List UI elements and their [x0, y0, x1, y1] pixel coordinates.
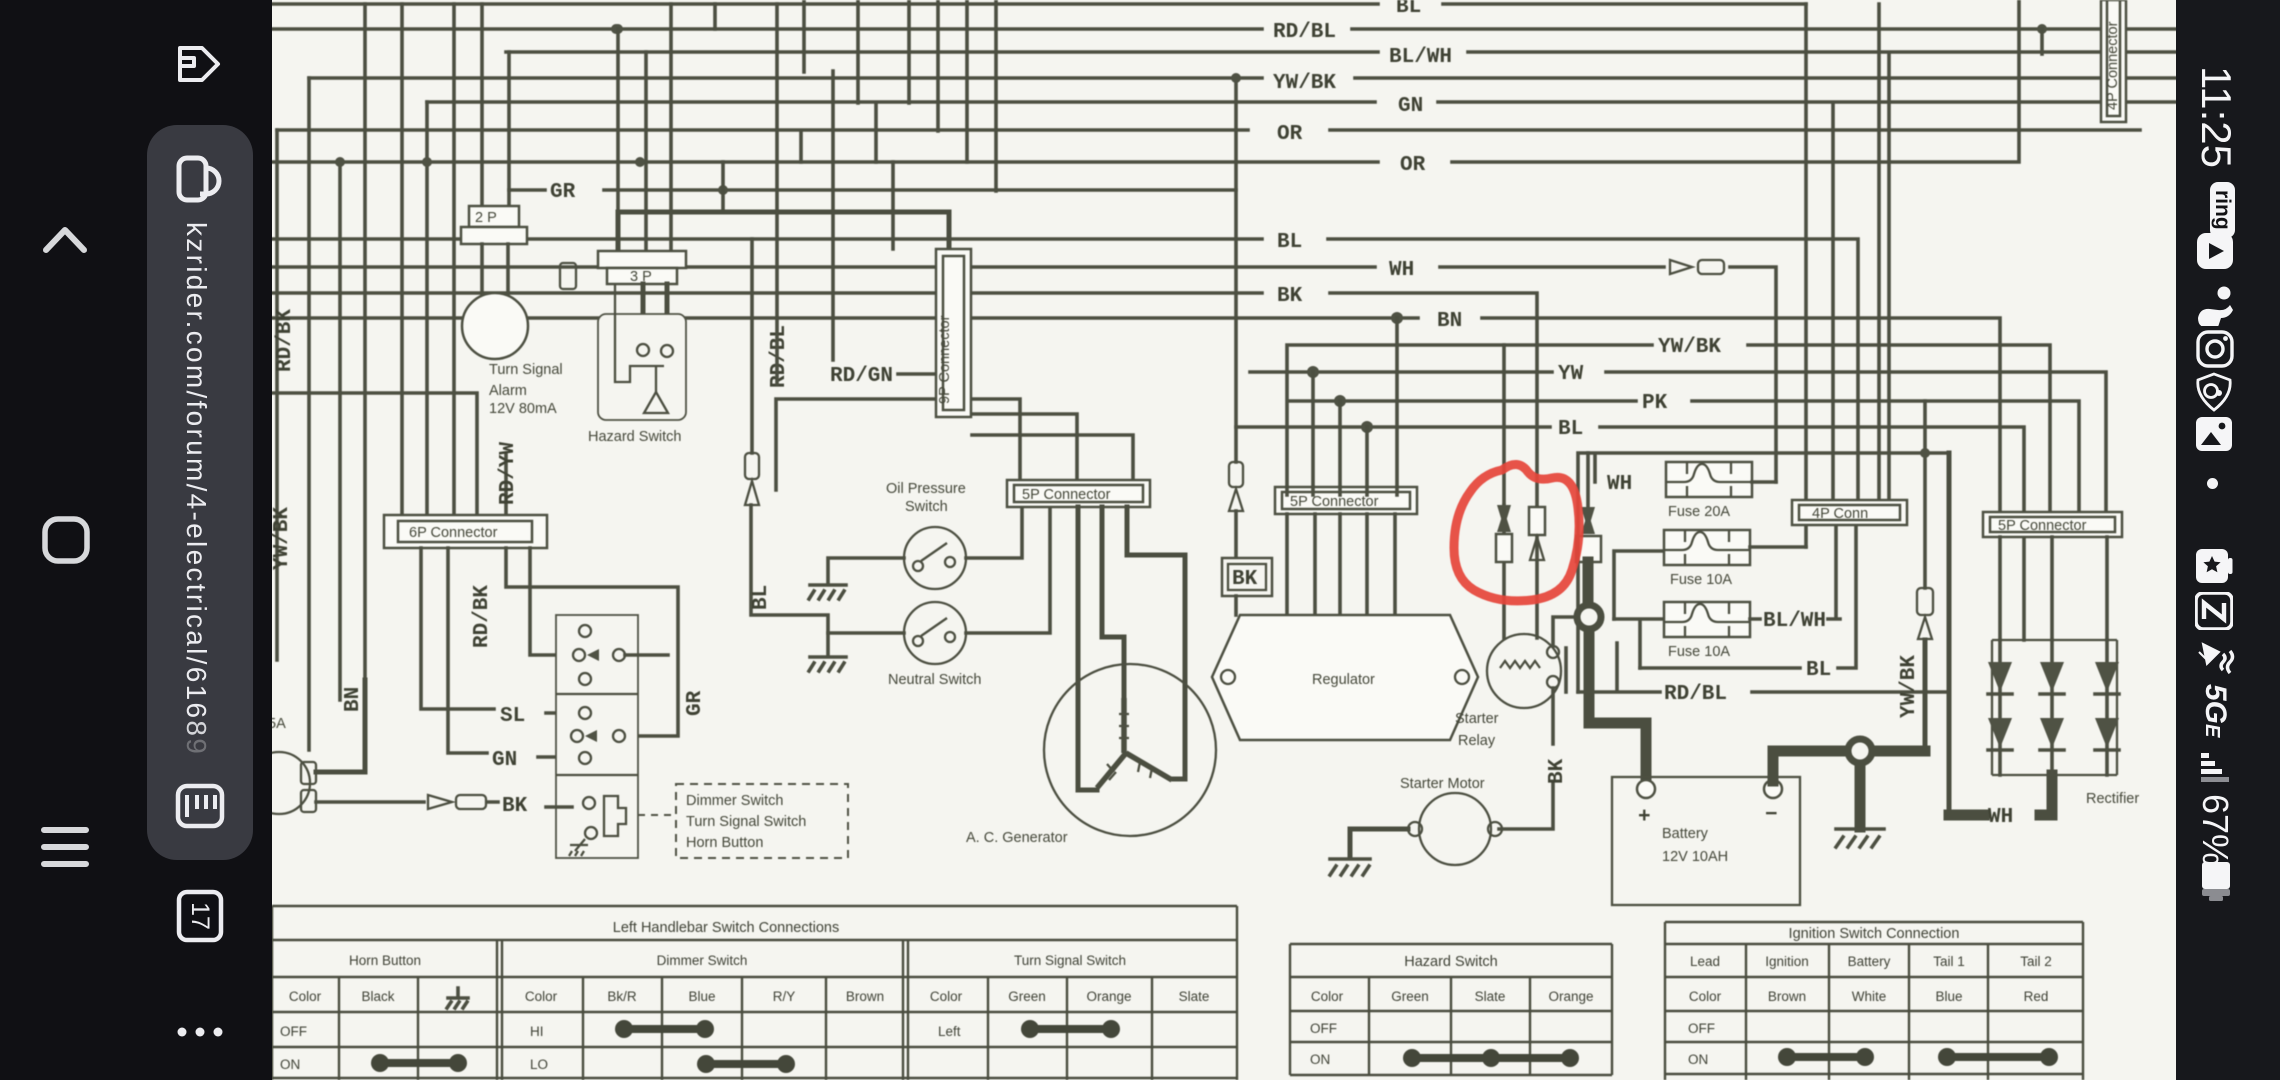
wire regulator pins [1287, 487, 1397, 615]
svg-text:Bk/R: Bk/R [607, 989, 637, 1004]
svg-text:Starter Motor: Starter Motor [1400, 776, 1485, 792]
svg-text:WH: WH [1389, 259, 1414, 282]
svg-text:Switch: Switch [905, 499, 948, 515]
connector top right [2101, 0, 2126, 122]
wire bus RD/BL [268, 4, 2176, 44]
oil pressure switch [904, 527, 966, 589]
play icon [2196, 232, 2234, 270]
photos [2195, 548, 2233, 584]
svg-text:BL: BL [750, 585, 773, 610]
wire battery negative thick [1773, 751, 1925, 827]
svg-text:OR: OR [1277, 123, 1303, 146]
svg-text:R/Y: R/Y [773, 989, 796, 1004]
svg-text:Tail 1: Tail 1 [1933, 954, 1965, 969]
junction ring battery [1848, 739, 1872, 763]
wire riser c [965, 0, 969, 162]
wire stub a [801, 0, 804, 162]
hazard linkage [615, 284, 664, 392]
wire vertical left 1 [275, 130, 279, 660]
connector 9P [936, 249, 971, 417]
wire bus BL/WH [506, 46, 2176, 69]
wire hazard pins down [643, 284, 667, 345]
wire bus OR 2 [268, 0, 2019, 177]
svg-text:YW/BK: YW/BK [1898, 655, 1921, 718]
svg-text:ON: ON [280, 1057, 300, 1072]
wire WH rectifier run [1947, 453, 1952, 813]
shield cam [2194, 372, 2234, 412]
connector 5P regulator [1275, 487, 1417, 514]
svg-text:RD/BK: RD/BK [471, 585, 494, 648]
svg-text:12V 10AH: 12V 10AH [1662, 849, 1728, 865]
svg-text:Turn Signal: Turn Signal [489, 362, 563, 378]
wire 3P pin mid [644, 52, 648, 253]
switch bar ignition ON 1 [1778, 1048, 1874, 1066]
battery [2198, 862, 2234, 902]
svg-text:LO: LO [530, 1057, 548, 1072]
oil pressure switch label [886, 481, 966, 515]
svg-text:ON: ON [1310, 1052, 1330, 1067]
svg-text:Brown: Brown [1768, 989, 1806, 1004]
wire RD/GN [830, 365, 936, 388]
wire rectifier feeds [2000, 537, 2107, 640]
svg-text:Relay: Relay [1458, 733, 1496, 749]
svg-text:Red: Red [2024, 989, 2049, 1004]
wire riser a [907, 0, 911, 103]
wire stub e [891, 162, 895, 249]
wire generator phase 2 [1102, 507, 1124, 702]
svg-text:Green: Green [1391, 989, 1429, 1004]
svg-text:ON: ON [1688, 1052, 1708, 1067]
neutral switch [904, 602, 966, 664]
wire ring to relay contact [1553, 617, 1577, 646]
wire GR link up [507, 52, 511, 208]
svg-text:Color: Color [1311, 989, 1344, 1004]
rectifier diodes col 1 [1988, 640, 2012, 775]
table left handlebar titles [289, 920, 1210, 1004]
wire oil to ground [828, 558, 904, 583]
svg-text:GN: GN [492, 749, 517, 772]
svg-text:Left: Left [938, 1024, 961, 1039]
wire PK [1290, 392, 2079, 512]
chevron up [38, 216, 92, 264]
svg-text:BK: BK [1546, 758, 1569, 784]
svg-text:RD/BK: RD/BK [274, 309, 297, 372]
wire riser d [994, 0, 998, 191]
hazard triangle [644, 392, 668, 413]
svg-text:Horn Button: Horn Button [686, 835, 763, 851]
svg-text:YW/BK: YW/BK [1658, 336, 1721, 359]
connector inline on drop [1229, 462, 1243, 558]
svg-text:Battery: Battery [1848, 954, 1891, 969]
N app [2195, 592, 2233, 630]
starter motor [1408, 793, 1502, 865]
dot [2207, 478, 2218, 489]
fuse 20A [1666, 462, 1776, 520]
signal bars (rotated layout: bars stacked vertically) [2198, 750, 2234, 788]
svg-text:OFF: OFF [1688, 1021, 1715, 1036]
wire BL lower [1236, 418, 2024, 640]
svg-text:OFF: OFF [1310, 1021, 1337, 1036]
LEFT BROWSER CHROME [0, 0, 272, 1080]
svg-text:Ignition: Ignition [1765, 954, 1809, 969]
switch bar ignition ON 2 [1938, 1048, 2058, 1066]
switch bar hazard ON [1403, 1049, 1579, 1067]
switch contacts col [571, 625, 668, 839]
svg-text:Color: Color [289, 989, 322, 1004]
connector 5P generator [1007, 480, 1150, 507]
rectifier diodes col 2 [2040, 640, 2064, 775]
svg-text:Oil Pressure: Oil Pressure [886, 481, 966, 497]
svg-text:Alarm: Alarm [489, 383, 527, 399]
svg-text:Black: Black [361, 989, 394, 1004]
svg-text:Left Handlebar Switch Connecti: Left Handlebar Switch Connections [613, 920, 840, 936]
wire riser b [936, 0, 940, 131]
wire bus GN [427, 95, 2176, 118]
svg-text:Green: Green [1008, 989, 1046, 1004]
svg-text:HI: HI [530, 1024, 544, 1039]
horn button key shape [604, 796, 626, 836]
svg-text:Hazard Switch: Hazard Switch [588, 429, 681, 445]
wire bus BL mid [268, 231, 1858, 500]
svg-text:BK: BK [502, 795, 528, 818]
hamburger [38, 822, 92, 872]
svg-text:GN: GN [1398, 95, 1423, 118]
wire drop w connector [745, 239, 759, 505]
wire bus OR 1 [277, 123, 2140, 146]
lock / site icon [172, 152, 228, 208]
wire BL stub [1640, 525, 1856, 682]
wire 3P pin right [669, 4, 673, 253]
wire vertical left 2 [307, 78, 311, 750]
wire SL [421, 548, 572, 728]
wire 6P pin e [504, 455, 508, 519]
horn circle [248, 752, 310, 814]
wire neutral to ground [828, 631, 904, 635]
wire dimmer feed [506, 548, 678, 736]
wire motor ground [1350, 829, 1408, 857]
svg-text:4P Conn: 4P Conn [1812, 506, 1868, 522]
svg-text:Fuse 20A: Fuse 20A [1668, 504, 1730, 520]
wire YW/BK battery riser [1917, 401, 1933, 751]
svg-text:RD/GN: RD/GN [830, 365, 893, 388]
svg-text:Lead: Lead [1690, 954, 1720, 969]
connector pair on WH wire [1670, 260, 1724, 274]
svg-text:Slate: Slate [1179, 989, 1210, 1004]
svg-text:BK: BK [1232, 568, 1258, 591]
svg-text:YW/BK: YW/BK [271, 507, 294, 570]
wire bus BL top [268, 0, 1806, 19]
wire WH stub thick [1949, 775, 2052, 829]
wire bus BN [268, 310, 2000, 512]
svg-text:BL: BL [1277, 231, 1302, 254]
svg-text:Color: Color [930, 989, 963, 1004]
svg-text:WH: WH [1607, 473, 1632, 496]
wire relay feed third [1576, 453, 1601, 562]
svg-text:OFF: OFF [280, 1024, 307, 1039]
vibrate [2193, 638, 2237, 680]
instagram [2196, 330, 2234, 368]
svg-text:Orange: Orange [1086, 989, 1131, 1004]
wire BL/WH [1750, 525, 1840, 633]
svg-text:5P Connector: 5P Connector [1022, 487, 1111, 503]
svg-text:YW/BK: YW/BK [1273, 72, 1336, 95]
wire 5P feed c [972, 435, 1133, 480]
wire 6P pin c [452, 4, 456, 519]
person icon [2194, 286, 2236, 326]
starter relay label [1455, 711, 1499, 749]
battery [1612, 777, 1800, 905]
rectifier diodes col 3 [2095, 640, 2119, 775]
svg-text:White: White [1852, 989, 1887, 1004]
wire stub b [831, 71, 835, 360]
svg-text:BN: BN [342, 687, 365, 712]
table hazard text [1311, 954, 1594, 1004]
svg-text:Dimmer Switch: Dimmer Switch [657, 953, 748, 968]
svg-text:Orange: Orange [1548, 989, 1593, 1004]
switch ground stub [569, 839, 588, 856]
wire 6P pin b [425, 102, 429, 519]
wire 2P pin [480, 4, 484, 208]
wire relay contact 2 [1529, 507, 1545, 638]
svg-text:6P Connector: 6P Connector [409, 525, 498, 541]
wire 5P feed b [972, 414, 1077, 480]
svg-text:Starter: Starter [1455, 711, 1499, 727]
gallery [2195, 416, 2233, 452]
table ignition text [1689, 926, 2052, 1004]
generator A.C. [1044, 664, 1216, 836]
switch bar dimmer HI [615, 1020, 714, 1038]
connector BK block [1222, 558, 1272, 596]
hazard contacts [637, 344, 673, 357]
svg-text:WH: WH [1988, 806, 2013, 829]
wire BK horn [316, 795, 572, 818]
svg-text:YW: YW [1558, 363, 1584, 386]
svg-text:BL: BL [1806, 659, 1831, 682]
svg-text:RD/BL: RD/BL [1273, 21, 1336, 44]
switch bar horn ON [371, 1054, 467, 1072]
highlight red circle [1454, 464, 1579, 600]
wire RD/BL lower [1578, 643, 1949, 706]
svg-text:+: + [1638, 806, 1651, 829]
svg-text:Brown: Brown [846, 989, 884, 1004]
regulator body [1212, 615, 1478, 740]
handlebar switch box [556, 615, 638, 858]
ground oil [809, 585, 846, 599]
wire alarm leads [482, 244, 508, 295]
svg-text:Battery: Battery [1662, 826, 1709, 842]
tab count [174, 884, 226, 948]
wire oil to 5P [966, 507, 1022, 558]
svg-text:Ignition Switch Connection: Ignition Switch Connection [1789, 926, 1960, 942]
wire contact feed [530, 548, 572, 655]
connector 2P [461, 206, 527, 244]
overflow dots [170, 1022, 230, 1042]
wire YW [1250, 363, 2106, 512]
wire bus BK [268, 285, 1537, 507]
RIGHT STATUS BAR [2176, 0, 2280, 1080]
svg-text:Neutral Switch: Neutral Switch [888, 672, 981, 688]
spare terminal rect [560, 263, 576, 289]
wire vertical BN branch [363, 4, 367, 680]
svg-text:5P Connector: 5P Connector [1998, 518, 2087, 534]
wire horn thick [316, 680, 365, 772]
svg-text:A. C. Generator: A. C. Generator [966, 830, 1068, 846]
svg-text:PK: PK [1642, 392, 1668, 415]
table left handlebar rows [280, 1024, 961, 1072]
svg-text:BN: BN [1437, 310, 1462, 333]
home squircle [40, 514, 92, 566]
svg-text:Tail 2: Tail 2 [2020, 954, 2052, 969]
svg-text:BL/WH: BL/WH [1389, 46, 1452, 69]
rectifier frame [1992, 640, 2117, 775]
horn ground symbol [447, 988, 468, 1008]
generator windings [1097, 698, 1172, 788]
horn connector pins [301, 762, 316, 812]
dashed link [638, 814, 676, 816]
wire GN [448, 548, 572, 772]
wire 6P pin d [268, 393, 477, 519]
svg-text:4P Connector: 4P Connector [2105, 21, 2121, 110]
svg-text:12V 80mA: 12V 80mA [489, 401, 557, 417]
svg-text:Color: Color [525, 989, 558, 1004]
svg-text:Regulator: Regulator [1312, 672, 1375, 688]
connector 4P [1792, 4, 1907, 547]
svg-text:Fuse 10A: Fuse 10A [1668, 644, 1730, 660]
wire generator phase 3 [1127, 507, 1185, 779]
fuse 10A first [1614, 530, 1806, 619]
wire fuse top run [1578, 453, 1949, 692]
svg-text:Color: Color [1689, 989, 1722, 1004]
svg-text:GR: GR [550, 181, 576, 204]
wire stub c [856, 0, 860, 103]
fuse 10A second [1614, 602, 1750, 668]
svg-text:SL: SL [500, 705, 525, 728]
ground starter [1330, 859, 1370, 875]
connector 5P right [1983, 512, 2122, 537]
svg-text:BK: BK [1277, 285, 1303, 308]
svg-text:Dimmer Switch: Dimmer Switch [686, 793, 783, 809]
wire 5P feed a [776, 399, 1020, 490]
wire YW/BK long drop [1234, 78, 1238, 462]
wire BK starter [1499, 688, 1569, 829]
starter relay [1487, 634, 1566, 708]
svg-text:BL: BL [1558, 418, 1583, 441]
wire BL branch [750, 505, 828, 655]
share icon [172, 36, 228, 92]
hazard switch box [598, 314, 686, 420]
wire hazard feed thick [618, 212, 949, 253]
wire bus WH [268, 259, 1776, 482]
svg-text:RD/YW: RD/YW [497, 442, 520, 505]
svg-text:BL/WH: BL/WH [1763, 610, 1826, 633]
svg-text:Fuse 10A: Fuse 10A [1670, 572, 1732, 588]
svg-text:Hazard Switch: Hazard Switch [1404, 954, 1497, 970]
wire RD/BL drop [775, 4, 779, 384]
svg-text:Horn Button: Horn Button [349, 953, 421, 968]
regulator mount holes [1221, 670, 1469, 684]
svg-text:OR: OR [1400, 154, 1426, 177]
wire relay contact 1 [1496, 505, 1512, 638]
svg-text:Blue: Blue [1935, 989, 1962, 1004]
wire neutral to 5P [966, 507, 1050, 633]
wire generator phase 1 [1078, 507, 1097, 790]
wire GR [509, 162, 1236, 212]
wire battery positive thick [1588, 562, 1646, 782]
svg-text:Turn Signal Switch: Turn Signal Switch [686, 814, 806, 830]
connector 6P [384, 515, 547, 548]
reader icon [172, 778, 228, 834]
legend text [686, 793, 806, 851]
svg-text:2 P: 2 P [475, 210, 497, 226]
svg-text:Rectifier: Rectifier [2086, 791, 2139, 807]
wire stub d [874, 103, 878, 162]
svg-text:Slate: Slate [1475, 989, 1506, 1004]
switch bar turn Left [1021, 1020, 1120, 1038]
svg-text:17: 17 [186, 902, 214, 930]
wire bus YW/BK [309, 72, 2176, 95]
wire 6P pin a [400, 4, 404, 519]
ground battery [1836, 829, 1884, 847]
ground neutral [809, 657, 846, 671]
svg-text:Turn Signal Switch: Turn Signal Switch [1014, 953, 1126, 968]
table hazard grid [1290, 944, 1612, 1075]
svg-text:9P Connector: 9P Connector [937, 315, 953, 404]
switch bar dimmer LO [697, 1055, 795, 1073]
dashed legend box [676, 784, 848, 858]
svg-text:RD/BL: RD/BL [768, 325, 791, 388]
svg-text:BL: BL [1396, 0, 1421, 19]
junction on RD/BL [2037, 24, 2047, 54]
svg-text:Blue: Blue [688, 989, 715, 1004]
wire vertical left 3 [338, 162, 342, 700]
svg-text:−: − [1765, 804, 1778, 827]
turn signal alarm text [489, 362, 563, 417]
table left handlebar grid [272, 906, 1237, 1080]
table ignition grid [1665, 922, 2083, 1080]
junction ring relay [1577, 605, 1601, 629]
connector 3P [598, 251, 686, 285]
wire YW/BK right [1287, 336, 2050, 512]
svg-text:RD/BL: RD/BL [1664, 683, 1727, 706]
wire BK block to regulator [1234, 596, 1238, 615]
turn signal alarm [462, 293, 528, 359]
svg-text:GR: GR [684, 690, 707, 716]
